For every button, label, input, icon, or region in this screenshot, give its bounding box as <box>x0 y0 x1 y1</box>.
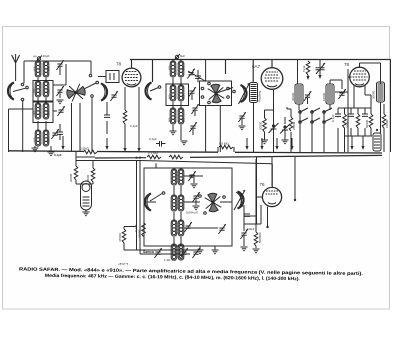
svg-text:100: 100 <box>33 137 37 142</box>
svg-text:400: 400 <box>168 65 172 70</box>
svg-text:400: 400 <box>168 94 172 99</box>
svg-text:0,1µF: 0,1µF <box>134 224 138 232</box>
svg-text:0,1µF: 0,1µF <box>331 114 335 122</box>
svg-text:6µF: 6µF <box>180 54 185 58</box>
svg-text:300: 300 <box>33 110 37 115</box>
svg-text:4700Ω: 4700Ω <box>118 232 122 242</box>
svg-text:50000Ω: 50000Ω <box>258 232 262 243</box>
svg-text:50000: 50000 <box>365 119 369 128</box>
svg-text:1 4Ω 4²µ: 1 4Ω 4²µ <box>164 258 176 262</box>
svg-text:30000: 30000 <box>291 92 295 101</box>
svg-text:78: 78 <box>116 62 122 67</box>
svg-text:800: 800 <box>47 110 51 115</box>
svg-text:10000: 10000 <box>322 92 326 101</box>
svg-text:0,1 MΩ: 0,1 MΩ <box>148 151 159 155</box>
svg-text:Samca: Samca <box>143 250 154 254</box>
svg-text:4700Ω: 4700Ω <box>138 228 142 238</box>
svg-text:800: 800 <box>182 117 186 122</box>
svg-text:0,1µF: 0,1µF <box>149 137 157 141</box>
svg-text:10000: 10000 <box>385 119 389 128</box>
svg-text:25000: 25000 <box>292 121 296 130</box>
svg-text:400: 400 <box>33 66 37 71</box>
svg-text:76: 76 <box>260 182 266 187</box>
svg-text:20000: 20000 <box>69 173 73 182</box>
svg-text:030: 030 <box>33 88 37 93</box>
svg-text:µµ: µµ <box>33 54 37 58</box>
svg-text:800: 800 <box>182 94 186 99</box>
svg-text:«¶%T ¶: «¶%T ¶ <box>118 262 129 266</box>
svg-text:0,044 µF: 0,044 µF <box>186 211 198 215</box>
svg-text:0,1µF: 0,1µF <box>54 153 62 157</box>
svg-text:800: 800 <box>47 66 51 71</box>
svg-text:2000: 2000 <box>346 121 350 128</box>
svg-text:100µF: 100µF <box>247 227 255 231</box>
svg-text:Tarat.: Tarat. <box>302 65 306 72</box>
svg-text:020: 020 <box>47 88 51 93</box>
svg-text:78: 78 <box>344 62 350 67</box>
svg-text:10µF: 10µF <box>43 54 50 58</box>
svg-text:300: 300 <box>168 117 172 122</box>
svg-text:Padding: Padding <box>258 91 262 102</box>
svg-text:800: 800 <box>47 137 51 142</box>
svg-text:800: 800 <box>182 65 186 70</box>
svg-text:30000: 30000 <box>372 90 376 99</box>
svg-text:0,5MΩ: 0,5MΩ <box>80 147 90 151</box>
svg-text:0,1µF: 0,1µF <box>130 124 138 128</box>
svg-text:20000: 20000 <box>259 121 263 130</box>
